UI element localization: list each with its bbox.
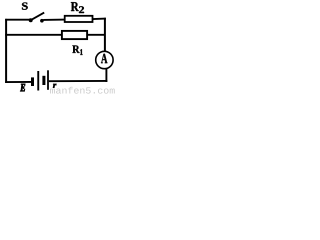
label R2 subscript 2 bbox=[79, 6, 84, 13]
resistor R1 body bbox=[62, 31, 87, 39]
label S (switch) bbox=[22, 3, 28, 10]
battery cell 1 long thin plate bbox=[37, 71, 39, 91]
label r (internal resistance) bbox=[53, 84, 56, 88]
battery cell 2 short thick plate bbox=[42, 76, 45, 85]
switch S lever arm bbox=[31, 13, 44, 21]
wire: R1 to right vertical (junction) bbox=[87, 34, 106, 36]
wire: R2 to top-right corner bbox=[93, 18, 106, 21]
battery cell 2 long thin plate bbox=[47, 70, 49, 90]
label E (battery emf) bbox=[20, 84, 25, 91]
watermark manfen5.com bbox=[50, 87, 115, 94]
wire: switch to R2 bbox=[43, 19, 65, 21]
switch S contact dot (left) bbox=[29, 18, 33, 22]
label R1 subscript 1 bbox=[80, 49, 82, 55]
wire: middle branch from left vertical to R1 bbox=[5, 34, 62, 36]
ammeter A body circle bbox=[96, 51, 113, 68]
wire: right vertical from top corner to ammeter bbox=[104, 18, 106, 51]
wire: top-left segment to switch bbox=[5, 19, 30, 21]
battery cell 1 short thick plate bbox=[31, 77, 34, 86]
label R1 letter R bbox=[72, 46, 79, 53]
label R2 letter R bbox=[71, 2, 79, 11]
switch S contact dot (right) bbox=[40, 19, 44, 23]
ammeter label A bbox=[101, 54, 107, 63]
wire: bottom segment left of battery bbox=[5, 81, 31, 83]
wire: ammeter to bottom wire bbox=[105, 69, 107, 82]
resistor R2 body bbox=[65, 16, 93, 22]
wire: bottom segment right of battery bbox=[49, 80, 108, 82]
wire: left vertical conductor bbox=[5, 19, 7, 83]
